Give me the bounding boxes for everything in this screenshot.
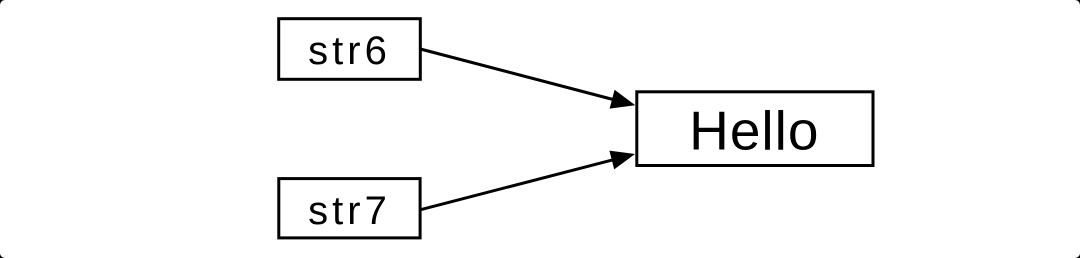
node Hello — [637, 92, 873, 166]
edge str6 to Hello: arrowhead — [610, 90, 636, 109]
node str7 — [279, 179, 420, 238]
node str6 — [279, 19, 421, 80]
edge str7 to Hello: wire — [420, 160, 613, 210]
svg-text:str6: str6 — [308, 29, 391, 73]
edge str6 to Hello: wire — [420, 49, 613, 100]
svg-text:Hello: Hello — [689, 99, 819, 161]
edge str7 to Hello: arrowhead — [609, 151, 635, 170]
svg-text:str7: str7 — [308, 189, 391, 233]
